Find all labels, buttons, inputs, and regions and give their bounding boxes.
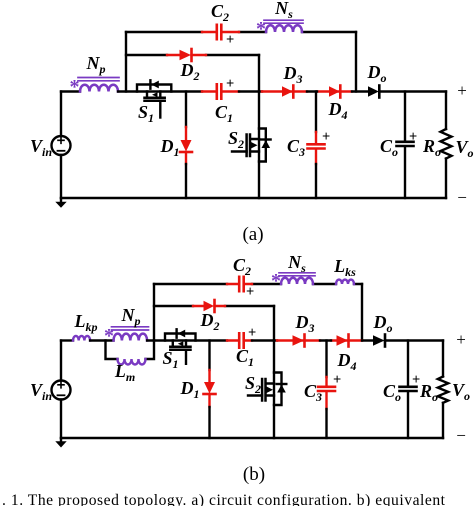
wire: D2 row right vertical down to main row (b) <box>273 306 275 341</box>
wire: left vertical from Vin bottom to bottom rail (a) <box>60 155 62 198</box>
diode Do (a) <box>368 86 379 98</box>
wire: vertical from main row up to top rail (b) <box>153 284 155 341</box>
capacitor C3 red leads (a) <box>315 132 317 164</box>
voltage source Vin (b) <box>52 381 71 400</box>
svg-text:+: + <box>456 330 466 349</box>
switch S2 (a): MOSFET body <box>232 135 259 157</box>
wire: D2 row right vertical down to main row (a) <box>258 55 260 92</box>
wire: D1 branch red leads (a) <box>185 127 187 164</box>
capacitor Co (b) <box>400 387 417 391</box>
wire: red leads of D2 (b) <box>193 305 225 307</box>
svg-text:+: + <box>226 32 234 48</box>
wire: main row from Do to output corner (a) <box>380 90 446 92</box>
svg-text:+: + <box>409 129 417 145</box>
wire: vertical from top rail down to main row at D4-Do node (a) <box>355 32 357 92</box>
wire: D1 branch vertical upper black (a) <box>185 92 187 128</box>
diode Do (b) <box>373 335 385 347</box>
inductor Lkp (b) <box>73 336 90 341</box>
diode D1 (a) <box>180 140 192 152</box>
wire: D1 branch red leads (b) <box>208 370 210 407</box>
capacitor C3 (b) <box>318 387 335 391</box>
capacitor C3 branch: black upper (b) <box>325 341 327 378</box>
switch S1 (b): MOSFET body <box>170 341 190 364</box>
wire: main row Lkp to Np (b) <box>90 339 113 341</box>
svg-text:*: * <box>256 18 266 40</box>
wire: vertical from top rail down to main row at D4-Do node (b) <box>361 284 363 341</box>
capacitor C3 red leads (b) <box>325 377 327 409</box>
capacitor C1 (b) <box>239 333 244 347</box>
svg-text:−: − <box>457 188 467 207</box>
svg-text:+: + <box>457 81 467 100</box>
svg-text:+: + <box>322 129 330 145</box>
transformer winding Ns (b) <box>271 270 315 292</box>
wire: bottom rail (b) <box>61 437 443 439</box>
capacitor C2 (a) <box>217 25 222 39</box>
wire: red leads of D2 (a) <box>167 54 206 56</box>
wire: main row left segment to Lkp (b) <box>61 339 73 341</box>
capacitor Co (a) <box>397 142 414 146</box>
switch S2 (a): body diode loop <box>259 129 271 162</box>
switch S1 (b): body diode loop <box>165 329 196 340</box>
capacitor C2 (b) <box>239 277 244 291</box>
inductor Lks (b) <box>336 280 354 284</box>
wire: left vertical from main row to Vin top (a) <box>60 92 62 137</box>
resistor Ro (b) <box>438 341 448 439</box>
wire: main row Np to S1 region (b) <box>147 339 227 341</box>
capacitor C3 branch: black lower (b) <box>325 409 327 438</box>
resistor Ro (a) <box>441 92 452 199</box>
wire: red leads of C1 (a) <box>202 90 239 92</box>
switch S2 (b): MOSFET body <box>248 379 274 401</box>
svg-text:−: − <box>456 426 466 445</box>
wire: D1 branch vertical upper black (b) <box>208 341 210 371</box>
capacitor Co branch lower (b) <box>407 392 409 438</box>
wire: left vertical from Vin bottom to bottom rail (b) <box>60 400 62 439</box>
svg-text:(a): (a) <box>242 224 263 245</box>
switch S2 (a): vertical branch upper <box>258 92 260 199</box>
wire: main row black segment C1 to S2 node (a) <box>239 90 262 92</box>
wire: main row black segment C1 to S2 node (b) <box>252 339 277 341</box>
wire: main row black segments at C3 node and before Do (b) <box>320 339 373 341</box>
inductor Lm parallel branch (b) <box>106 341 155 365</box>
wire: left vertical from main row to Vin top (b) <box>60 341 62 381</box>
svg-text:+: + <box>333 372 341 388</box>
wire: top rail with C2,Ns,Lks (b) <box>154 283 362 285</box>
capacitor C3 branch: black upper (a) <box>315 92 317 133</box>
node: junction of top branch vertical with main row (a) <box>125 32 127 92</box>
wire: red leads of C1 (b) <box>227 339 252 341</box>
svg-text:+: + <box>246 284 254 300</box>
switch S1 (a): MOSFET body <box>145 92 165 118</box>
wire: main row red segment S2 node to Do anode (b) <box>277 339 362 341</box>
wire: main row from Do to output corner (b) <box>385 339 443 341</box>
capacitor Co branch lower (a) <box>404 147 406 198</box>
wire: D1 branch lower black to bottom rail (b) <box>208 407 210 438</box>
wire: main row left segment to Np (a) <box>61 90 80 92</box>
diode D2 (b) <box>204 300 215 312</box>
svg-text:(b): (b) <box>243 464 265 485</box>
wire: red leads of C2 (b) <box>227 283 252 285</box>
voltage source Vin (a) <box>52 136 71 155</box>
capacitor C3 branch: black lower (a) <box>315 164 317 198</box>
svg-text:*: * <box>271 270 281 292</box>
svg-text:*: * <box>70 76 80 98</box>
capacitor C3 (a) <box>308 144 325 148</box>
capacitor Co branch upper (a) <box>404 92 406 142</box>
wire: D2 row from left vertical (a) <box>126 54 259 56</box>
wire: red leads of C2 (a) <box>202 31 239 33</box>
diode D3 (a) <box>282 86 293 98</box>
diode D3 (b) <box>293 335 305 347</box>
wire: main row black segments at C3 node and before Do (a) <box>307 90 368 92</box>
switch S2 (b): body diode loop <box>274 373 286 406</box>
ground (a) <box>60 198 62 202</box>
svg-text:+: + <box>226 76 234 92</box>
switch S2 (b): vertical branch <box>273 341 275 439</box>
transformer winding Np (b) <box>104 325 149 347</box>
switch S1 (a): body diode loop <box>137 80 171 91</box>
transformer winding Np (a) <box>70 76 120 98</box>
capacitor C1 (a) <box>217 84 222 98</box>
wire: D2 row from left vertical (b) <box>154 305 274 307</box>
svg-text:+: + <box>412 372 420 388</box>
diode D4 (b) <box>337 335 349 347</box>
svg-text:+: + <box>248 325 256 341</box>
wire: top rail with C2,Ns (a) <box>126 31 356 33</box>
wire: D1 branch lower black to bottom rail (a) <box>185 164 187 198</box>
wire: bottom rail (a) <box>61 197 446 199</box>
transformer winding Ns (a) <box>256 18 303 40</box>
svg-text:. 1. The proposed topology. a): . 1. The proposed topology. a) circuit c… <box>2 492 446 506</box>
wire: main row Np to S1 region (a) <box>118 90 202 92</box>
diode D2 (a) <box>180 49 192 61</box>
diode D4 (a) <box>329 86 340 98</box>
diode D1 (b) <box>204 382 216 394</box>
capacitor Co branch upper (b) <box>407 341 409 387</box>
wire: main row red segment S2 node to Do anode (a) <box>262 90 352 92</box>
ground (b) <box>60 438 62 442</box>
